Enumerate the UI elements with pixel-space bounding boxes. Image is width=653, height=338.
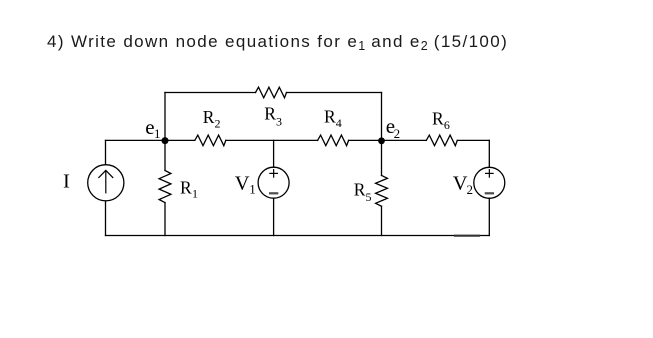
wire: R5 bottom lead	[381, 206, 383, 235]
svg-text:2: 2	[394, 126, 401, 141]
svg-text:2: 2	[467, 182, 474, 197]
svg-text:1: 1	[249, 182, 256, 197]
wire: top rail right segment from R3 to riser	[287, 92, 382, 94]
wire: riser from top rail down to node e2	[381, 93, 383, 141]
wire: R4 right lead to node e2	[349, 139, 382, 141]
resistor R4	[318, 135, 349, 146]
wire: R2 right lead to R4 left lead (through V1 tap)	[226, 139, 318, 141]
wire: bottom rail overlap (darker doubled segment)	[455, 235, 479, 237]
resistor R2	[195, 135, 226, 146]
wire: V2 bottom lead	[488, 198, 490, 235]
wire: top rail left segment to R3	[165, 92, 256, 94]
svg-text:2: 2	[215, 117, 221, 131]
wire: current source bottom lead	[105, 201, 107, 236]
svg-text:5: 5	[366, 190, 372, 204]
wire: bottom rail	[106, 235, 490, 237]
svg-text:I: I	[63, 170, 70, 192]
wire: V1 bottom lead	[273, 198, 275, 235]
svg-text:3: 3	[276, 115, 282, 129]
wire: node e1 to R2 left lead	[165, 139, 195, 141]
resistor R3	[256, 87, 287, 98]
current source I (circle with up arrow)	[88, 165, 124, 201]
wire: R5 top lead from node e2	[381, 140, 383, 175]
voltage source V1 (circle with + and -)	[258, 167, 289, 198]
svg-text:R: R	[324, 107, 336, 127]
svg-text:R: R	[432, 109, 444, 129]
wire: riser from node e1 up to top rail	[164, 93, 166, 141]
resistor R6	[426, 135, 457, 146]
wire: middle rail left segment from current source to node e1	[106, 139, 166, 141]
svg-text:R: R	[354, 180, 366, 200]
wire: V2 top lead from middle rail corner	[488, 140, 490, 167]
wire: R6 right lead to V2 top corner	[457, 139, 489, 141]
svg-text:1: 1	[192, 187, 198, 201]
svg-text:V: V	[235, 172, 250, 194]
resistor R1	[159, 171, 171, 203]
wire: node e2 to R6 left lead	[382, 139, 427, 141]
svg-text:R: R	[180, 177, 192, 197]
wire: V1 top lead	[273, 140, 275, 167]
wire: R1 bottom lead	[164, 203, 166, 236]
svg-text:6: 6	[444, 118, 450, 132]
wire: current source top lead	[105, 140, 107, 164]
svg-text:R: R	[203, 107, 215, 127]
resistor R5	[376, 175, 388, 206]
svg-text:1: 1	[154, 126, 161, 141]
node e2 junction dot	[378, 137, 385, 144]
node e1 junction dot	[162, 137, 169, 144]
voltage source V2 (circle with + and -)	[474, 167, 505, 198]
wire: R1 top lead from node e1	[164, 140, 166, 170]
svg-text:4: 4	[336, 116, 342, 130]
svg-text:R: R	[264, 103, 276, 123]
